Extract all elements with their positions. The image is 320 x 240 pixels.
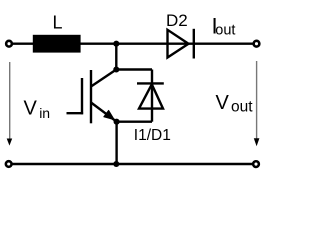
svg-text:D2: D2 bbox=[166, 11, 188, 30]
svg-text:L: L bbox=[53, 12, 63, 32]
svg-text:I1/D1: I1/D1 bbox=[134, 127, 171, 144]
svg-text:V: V bbox=[216, 92, 230, 114]
svg-text:out: out bbox=[215, 22, 235, 38]
svg-text:in: in bbox=[39, 105, 50, 121]
svg-text:out: out bbox=[231, 99, 253, 116]
svg-text:V: V bbox=[24, 98, 38, 120]
